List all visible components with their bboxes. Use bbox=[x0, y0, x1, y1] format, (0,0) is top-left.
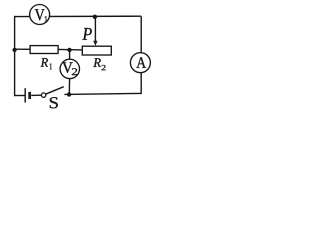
label P bbox=[82, 28, 91, 40]
wire: V2 top stub bbox=[69, 49, 71, 59]
label S bbox=[50, 97, 58, 108]
wire: bottom right (switch contact to right corner) bbox=[64, 93, 141, 94]
label R2 bbox=[93, 58, 101, 67]
battery cell: short thick plate bbox=[28, 92, 31, 99]
node: between R1 and R2 bbox=[67, 48, 71, 52]
node: bottom junction (V2 tap) bbox=[67, 92, 71, 96]
slider wire from top junction bbox=[94, 16, 96, 42]
wire: right vertical bbox=[140, 16, 142, 94]
wire: battery to switch pivot bbox=[31, 94, 41, 96]
wire: left vertical bbox=[14, 16, 16, 96]
label R1 bbox=[41, 58, 48, 67]
wire: V2 bottom stub bbox=[68, 79, 70, 95]
wire: middle between R1 and R2 bbox=[58, 48, 82, 51]
voltmeter V2 bbox=[60, 59, 79, 78]
slider arrowhead P onto R2 bbox=[93, 41, 97, 46]
wire: middle left (left wire to R1) bbox=[15, 48, 31, 50]
voltmeter V1 bbox=[30, 5, 50, 25]
resistor R2 body (rheostat track) bbox=[82, 46, 111, 55]
wire: bottom left (corner to battery) bbox=[14, 95, 25, 97]
battery cell: long plate bbox=[24, 88, 26, 102]
wire: top horizontal bbox=[15, 15, 142, 17]
ammeter A bbox=[130, 53, 150, 73]
node: top junction (slider tap) bbox=[93, 15, 97, 19]
node: left junction bbox=[12, 48, 16, 52]
switch S: open blade bbox=[46, 87, 64, 95]
switch S: pivot circle bbox=[41, 93, 45, 97]
resistor R1 body bbox=[30, 46, 58, 54]
